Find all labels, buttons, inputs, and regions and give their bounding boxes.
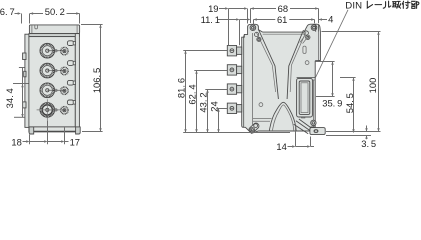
channel 3 link washer: [55, 89, 57, 91]
terminal block 3: [227, 84, 236, 94]
svg-text:35. 9: 35. 9: [322, 98, 342, 109]
dimension 54.5 line: [353, 78, 355, 133]
channel 3 link line BNC to jack: [47, 89, 64, 91]
side view: top-right ear screw boss: [311, 25, 317, 31]
front view: left flange: [25, 34, 29, 127]
dimension 3.5 lines: [326, 131, 381, 133]
dimension 14 lines: [288, 146, 295, 148]
label DIN rail mount: katakana/kanji strokes: [367, 1, 419, 8]
side view: ledge above DIN bracket: [297, 76, 316, 78]
channel 1 link washer: [55, 50, 57, 52]
side view: right lower edge inner line: [312, 80, 314, 127]
svg-text:62. 4: 62. 4: [186, 84, 197, 104]
svg-text:6. 7: 6. 7: [0, 6, 15, 17]
channel 2 link line BNC to jack: [47, 70, 64, 72]
dimension 4 leader: [319, 18, 322, 21]
side view: right latch screw: [311, 120, 316, 125]
side view: vertical slot: [303, 46, 306, 53]
terminal screw 1: [230, 49, 234, 53]
svg-text:11. 1: 11. 1: [201, 14, 220, 25]
svg-text:68: 68: [278, 3, 288, 14]
BNC J4 crosshair centerlines: [37, 109, 58, 111]
side view: ledge step at right: [315, 60, 320, 62]
terminal block 4: [227, 103, 236, 113]
bottom extension lines front: [29, 134, 31, 144]
label leader line: [316, 10, 349, 78]
side view: right boss pair: [304, 31, 308, 35]
front view: top cap inner edges: [31, 25, 33, 33]
jack nut 3: [61, 87, 68, 94]
jack nut 2: [61, 67, 68, 74]
side view: small hole lower left: [259, 103, 263, 107]
side view: small hole right: [305, 61, 309, 65]
svg-text:100: 100: [367, 78, 378, 94]
channel 4 link line BNC to jack: [47, 109, 64, 111]
terminal screw 3: [230, 87, 234, 91]
side view: left edge inner line: [243, 36, 245, 128]
dimension 6.7 lines: [15, 13, 20, 15]
front view: top cap notch: [35, 25, 38, 29]
svg-text:61: 61: [277, 14, 287, 25]
front view: left mounting tab 1: [23, 53, 26, 60]
svg-text:18: 18: [11, 136, 21, 147]
LED indicator 3: [67, 80, 73, 85]
front view: bottom corner cap right: [76, 127, 81, 134]
BNC connector J1: [40, 43, 55, 58]
svg-text:81. 6: 81. 6: [175, 78, 186, 98]
terminal screw 4: [230, 106, 234, 110]
bottom baseline left dims: [183, 132, 290, 134]
svg-text:4: 4: [328, 13, 333, 24]
channel 4 link washer: [55, 109, 57, 111]
side view: left foot latch capsule: [248, 122, 260, 134]
terminal screw 2: [230, 68, 234, 72]
channel 1 link line BNC to jack: [47, 50, 64, 52]
BNC connector J3: [40, 83, 55, 98]
side view: X-brace rib right: [287, 30, 303, 99]
side view: latch lever diagonals: [294, 119, 312, 134]
front view: top cap: [29, 25, 79, 34]
LED indicator 2: [67, 61, 73, 66]
svg-text:3. 5: 3. 5: [361, 138, 376, 149]
side view: body silhouette: [242, 24, 321, 133]
front view: bottom band: [29, 127, 79, 132]
dimension 35.9 lines: [332, 62, 334, 97]
side view: face edge line: [252, 33, 254, 131]
BNC connector J2: [40, 63, 55, 78]
side view: top plateau second line: [263, 33, 304, 35]
terminal block 1: [227, 46, 236, 56]
front view: left mounting tab 3: [23, 102, 26, 108]
BNC connector J4: [40, 103, 55, 118]
svg-text:50. 2: 50. 2: [45, 6, 65, 17]
side view: right foot slider: [310, 128, 325, 135]
dimension 18 lines: [23, 141, 29, 143]
DIN rail mounting bracket outer: [297, 78, 313, 117]
side view: top-left ear screw boss: [250, 25, 256, 31]
svg-text:34. 4: 34. 4: [4, 88, 15, 108]
front view: bottom corner cap left: [29, 127, 34, 134]
side view: right edge inner line: [318, 32, 320, 61]
dimension 19 lines: [219, 8, 227, 10]
terminal block 2: [227, 65, 236, 75]
side view: latch hill outer: [269, 102, 296, 131]
DIN rail mounting bracket inner: [299, 81, 310, 114]
svg-text:24: 24: [208, 101, 219, 111]
front view: left mounting tab 2: [24, 71, 26, 77]
jack nut 1: [61, 47, 68, 54]
LED indicator 1: [67, 41, 73, 46]
channel 2 link washer: [55, 69, 57, 71]
dimension 100 line: [378, 32, 380, 132]
svg-text:43. 2: 43. 2: [197, 92, 208, 112]
front view: right side band: [75, 34, 79, 131]
svg-text:17: 17: [70, 136, 80, 147]
dimension 17 lines: [48, 141, 64, 143]
svg-text:19: 19: [208, 3, 218, 14]
dimension 106.5 line: [100, 25, 102, 132]
side view: gusset hatch lines: [300, 36, 307, 43]
side view: latch hill inner: [272, 105, 293, 131]
side view: bracket bottom notch: [302, 114, 305, 118]
dimension 68 lines: [251, 8, 277, 10]
dimension 61 lines: [254, 19, 276, 21]
side view: left boss pair: [255, 32, 259, 36]
side view: bottom interior lines: [253, 118, 272, 120]
front view: upper band: [29, 34, 79, 37]
dimension 34.4 line: [22, 68, 24, 118]
side view: X-brace rib left: [259, 30, 279, 99]
front view: main face: [29, 37, 75, 127]
side view: ear tab lines (4mm tab): [315, 24, 317, 32]
LED indicator 4: [67, 100, 73, 105]
dimension 50.2 lines: [67, 13, 80, 15]
jack nut 4: [61, 107, 68, 114]
svg-text:14: 14: [276, 141, 286, 152]
dimension 11.1 lines: [218, 19, 238, 21]
